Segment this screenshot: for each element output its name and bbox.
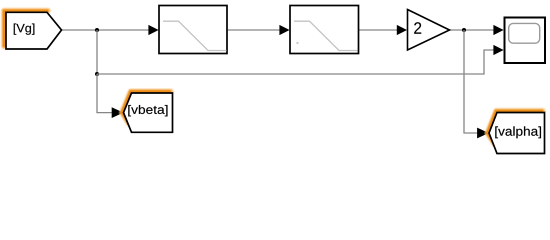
wire filter2 to gain [359,25,408,35]
node junction at (464,30) [462,28,466,32]
wire long horizontal to scope lower input [97,45,504,74]
scope block [505,18,546,64]
Goto block [vbeta] [124,93,173,132]
wire gain to scope upper input [450,25,504,35]
From tag Vg orange highlight [4,11,48,47]
wire down to vbeta goto [97,74,123,118]
Goto tag valpha orange highlight [487,111,543,145]
From block [Vg] [6,12,62,49]
wire filter1 to filter2 [227,25,290,35]
gain block value 2 [408,10,450,51]
Goto block [valpha] [489,113,545,154]
filter block 1 (lowpass) [159,6,227,54]
wire from gain junction down to valpha goto [464,30,489,138]
wire branch down from (97,30) to (97,74) [96,30,98,74]
filter block 2 (lowpass) [290,6,359,54]
node junction at (97,30) [95,28,99,32]
wire from Vg to filter1 [62,25,159,35]
Goto tag vbeta orange highlight [122,91,171,124]
node junction at (97,74) [95,72,99,76]
